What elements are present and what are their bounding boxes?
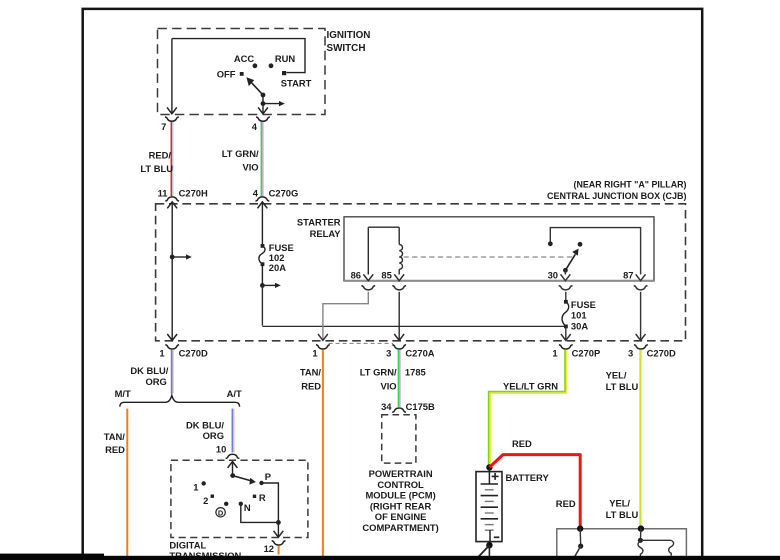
svg-text:7: 7 xyxy=(161,121,166,132)
label OFF xyxy=(217,69,236,80)
svg-text:LT GRN/: LT GRN/ xyxy=(222,148,259,159)
connector C270D right labels xyxy=(628,347,676,358)
DTR label N xyxy=(244,502,251,513)
svg-text:STARTER: STARTER xyxy=(297,217,341,228)
pin 4 label xyxy=(252,121,258,132)
DTR pin 10 cup xyxy=(226,454,240,458)
svg-text:RUN: RUN xyxy=(275,53,296,64)
svg-text:TAN/: TAN/ xyxy=(104,431,126,442)
svg-text:OFF: OFF xyxy=(217,69,236,80)
CJB center wire below fuse, junction dot and branch arrow xyxy=(260,264,281,288)
connector exit 1 cup (TAN/RED) xyxy=(316,345,330,349)
svg-text:RED: RED xyxy=(301,380,321,391)
solenoid S-terminal dot (yellow wire) xyxy=(638,525,644,531)
svg-text:C270A: C270A xyxy=(405,347,434,358)
connector C270A labels xyxy=(386,347,435,358)
svg-text:30A: 30A xyxy=(571,320,588,331)
svg-text:(NEAR RIGHT "A" PILLAR): (NEAR RIGHT "A" PILLAR) xyxy=(574,178,687,189)
wire YEL/LT GRN from C270P to battery xyxy=(489,350,567,467)
battery box xyxy=(476,472,502,542)
svg-text:DK BLU/: DK BLU/ xyxy=(186,419,224,430)
svg-text:CONTROL: CONTROL xyxy=(377,479,424,490)
svg-text:C270G: C270G xyxy=(269,187,299,198)
svg-text:87: 87 xyxy=(623,269,633,280)
relay pin 87 cup xyxy=(634,286,648,290)
svg-text:1: 1 xyxy=(552,347,557,358)
CJB left wire (C270H to C270D) with end arrows xyxy=(167,202,177,341)
wire LT GRN/VIO from pin 4 to C270G xyxy=(261,122,263,196)
svg-text:C270P: C270P xyxy=(572,347,601,358)
relay coil branch pin 86 lead xyxy=(363,227,399,281)
svg-text:3: 3 xyxy=(628,347,633,358)
battery negative junction dot xyxy=(486,542,492,548)
svg-text:4: 4 xyxy=(252,121,258,132)
label RED/LT BLU xyxy=(140,150,173,175)
label TAN/RED (M/T) xyxy=(104,431,126,455)
DTR label P xyxy=(265,471,271,482)
DTR wire N to junction xyxy=(241,504,279,523)
svg-text:M/T: M/T xyxy=(115,388,131,399)
connector C270G cup xyxy=(256,197,270,201)
relay pin 85 label xyxy=(381,269,391,280)
connector C270P cup xyxy=(559,345,573,349)
CJB location label xyxy=(547,178,687,200)
solenoid terminal dot (battery feed) xyxy=(577,525,583,531)
page frame border xyxy=(83,9,703,560)
label YEL/LT BLU lower xyxy=(606,498,639,520)
DTR pin 12 arrow out of box xyxy=(274,522,284,537)
contact OFF (square) xyxy=(240,72,244,76)
connector C270D left cup xyxy=(165,345,179,349)
ignition switch wire to pin 4 with down arrow xyxy=(258,95,268,114)
label YEL/LT BLU upper xyxy=(606,369,639,391)
svg-text:12: 12 xyxy=(264,543,274,554)
svg-text:LT BLU: LT BLU xyxy=(606,381,639,392)
label LT GRN/VIO xyxy=(360,367,397,392)
svg-text:LT GRN/: LT GRN/ xyxy=(360,367,397,378)
wire TAN/RED M/T branch xyxy=(126,409,128,556)
central junction box dashed border xyxy=(156,204,686,341)
PCM dashed box xyxy=(382,415,416,463)
label START xyxy=(281,78,312,89)
svg-text:START: START xyxy=(281,78,312,89)
svg-text:D: D xyxy=(218,508,224,517)
svg-text:30: 30 xyxy=(548,269,558,280)
relay moving contact dot xyxy=(578,242,583,247)
starter solenoid box xyxy=(557,529,687,557)
DTR pin 12 wire stub xyxy=(278,546,280,555)
contact START (square) xyxy=(282,71,286,75)
wire from pin 30 through fuse F101 to C270P xyxy=(565,292,567,302)
svg-text:OF ENGINE: OF ENGINE xyxy=(375,511,427,522)
ignition switch blade with arrow toward OFF xyxy=(246,77,263,95)
svg-text:C270D: C270D xyxy=(647,347,676,358)
svg-text:3: 3 xyxy=(386,347,391,358)
svg-text:RELAY: RELAY xyxy=(310,228,342,239)
svg-text:DIGITAL: DIGITAL xyxy=(169,539,206,550)
DTR name label xyxy=(169,539,241,560)
relay pin 87 label xyxy=(623,269,633,280)
svg-text:YEL/: YEL/ xyxy=(609,498,630,509)
DTR circled D xyxy=(216,508,225,518)
svg-text:RED: RED xyxy=(556,498,576,509)
ignition switch feed node dot xyxy=(261,101,266,106)
connector C270A cup xyxy=(392,345,406,349)
connector C270H cup xyxy=(165,197,179,201)
fuse F101 labels xyxy=(571,299,596,332)
svg-text:LT BLU: LT BLU xyxy=(140,163,173,174)
fuse F101 xyxy=(562,300,569,328)
svg-text:10: 10 xyxy=(216,443,226,454)
DTR contact D dot xyxy=(224,502,228,506)
svg-text:(RIGHT REAR: (RIGHT REAR xyxy=(370,500,432,511)
svg-text:CENTRAL JUNCTION BOX (CJB): CENTRAL JUNCTION BOX (CJB) xyxy=(547,190,687,201)
pin 7 connector cup xyxy=(165,117,179,121)
connector C270P labels xyxy=(552,347,600,358)
svg-text:POWERTRAIN: POWERTRAIN xyxy=(369,468,433,479)
battery cable RED xyxy=(489,455,580,527)
svg-text:86: 86 xyxy=(351,269,361,280)
svg-text:SWITCH: SWITCH xyxy=(327,43,366,54)
DTR junction dot xyxy=(276,520,281,525)
wire from pin 85 to CJB exit C270A xyxy=(394,292,404,341)
svg-text:20A: 20A xyxy=(269,262,286,273)
relay blade bottom dot and pin 30 lead xyxy=(561,268,571,281)
connector C270G labels xyxy=(253,187,299,198)
connector exit 1 label xyxy=(312,347,317,358)
label TAN/RED xyxy=(300,367,322,392)
pin 4 connector cup xyxy=(256,117,270,121)
DTR pin 12 cup xyxy=(272,541,286,545)
wire DK BLU/ORG from C270D xyxy=(172,350,174,394)
svg-text:ACC: ACC xyxy=(234,53,255,64)
DTR pin 12 label xyxy=(264,543,274,554)
svg-text:C270H: C270H xyxy=(179,187,208,198)
DTR contact N xyxy=(239,502,243,506)
svg-text:11: 11 xyxy=(158,187,168,198)
svg-text:TAN/: TAN/ xyxy=(300,367,322,378)
relay pin 86 label xyxy=(351,269,361,280)
svg-text:FUSE: FUSE xyxy=(571,299,596,310)
svg-text:RED: RED xyxy=(105,444,125,455)
DTR contact 2 xyxy=(211,495,214,498)
svg-text:1: 1 xyxy=(193,481,198,492)
starter relay label xyxy=(297,217,341,239)
ignition switch dashed box xyxy=(158,29,326,115)
svg-text:N: N xyxy=(244,502,251,513)
relay pin 85 cup xyxy=(392,286,406,290)
pin 7 label xyxy=(161,121,166,132)
svg-text:C270D: C270D xyxy=(179,347,208,358)
connector C175B labels xyxy=(381,401,435,412)
M/T A/T splice brace xyxy=(120,395,240,407)
battery positive terminal stem xyxy=(488,467,490,484)
CJB center wire top segment with up arrow xyxy=(258,202,268,246)
svg-text:34: 34 xyxy=(381,401,392,412)
relay pin 86 cup xyxy=(361,286,375,290)
label RED upper xyxy=(512,438,532,449)
PCM text block xyxy=(362,468,438,533)
svg-text:MODULE (PCM): MODULE (PCM) xyxy=(365,490,435,501)
DTR label R xyxy=(259,492,266,503)
fuse F102 xyxy=(259,244,265,266)
svg-text:101: 101 xyxy=(571,309,587,320)
svg-text:LT BLU: LT BLU xyxy=(606,509,639,520)
DTR sensor dashed box xyxy=(171,460,308,537)
label circuit 1785 xyxy=(405,367,426,378)
svg-text:VIO: VIO xyxy=(380,380,396,391)
wire from pin 87 to CJB exit C270D xyxy=(636,292,646,341)
DTR contact 1 xyxy=(202,481,206,485)
starter relay box xyxy=(344,217,654,281)
label DK BLU/ORG (A/T) xyxy=(186,419,224,440)
DTR wire P to pin 12 xyxy=(262,483,279,522)
connector C270H labels xyxy=(158,187,208,198)
DTR selector blade with arrow to P xyxy=(233,476,256,485)
DTR contact P xyxy=(259,481,263,485)
svg-text:VIO: VIO xyxy=(242,162,258,173)
svg-text:YEL/: YEL/ xyxy=(606,369,627,380)
wire LT GRN/VIO circuit 1785 xyxy=(399,350,401,407)
relay contact feed wire to pin 87 xyxy=(550,228,645,281)
svg-text:ORG: ORG xyxy=(145,376,166,387)
contact ACC (dot) xyxy=(253,63,258,68)
fuse F102 labels xyxy=(269,242,294,273)
battery ground leads xyxy=(478,545,490,557)
svg-text:C175B: C175B xyxy=(406,401,435,412)
relay pin 30 cup xyxy=(559,286,573,290)
svg-text:4: 4 xyxy=(253,187,259,198)
label DK BLU/ORG xyxy=(130,365,168,387)
battery minus sign xyxy=(494,536,500,538)
svg-text:2: 2 xyxy=(203,495,208,506)
ignition switch label xyxy=(327,30,371,54)
label RED lower xyxy=(556,498,576,509)
bottom black bar xyxy=(0,556,780,560)
battery negative stem xyxy=(489,530,491,545)
DTR label 2 xyxy=(203,495,208,506)
ignition switch internal wire (top bar to START) xyxy=(172,39,305,73)
connector C270D right cup xyxy=(634,345,648,349)
wire DK BLU/ORG A/T branch xyxy=(232,409,234,453)
svg-text:YEL/LT GRN: YEL/LT GRN xyxy=(503,381,558,392)
svg-text:R: R xyxy=(259,492,266,503)
ignition switch right arrow from feed node xyxy=(263,101,285,106)
svg-text:85: 85 xyxy=(381,269,391,280)
DTR pin 10 arrow into box xyxy=(228,462,238,476)
solenoid switch lead and dot xyxy=(574,529,583,558)
ignition switch left wire to pin 7 with down arrow xyxy=(167,39,177,114)
connector C270A group dashed edge xyxy=(329,342,394,344)
ignition switch pivot dot xyxy=(261,93,266,98)
svg-text:1785: 1785 xyxy=(405,367,426,378)
svg-text:1: 1 xyxy=(159,347,164,358)
svg-text:IGNITION: IGNITION xyxy=(327,30,371,41)
wire RED/LT BLU from pin 7 to C270H xyxy=(171,122,173,196)
CJB left wire junction dot and branch arrow xyxy=(170,254,192,259)
label ACC xyxy=(234,53,255,64)
wire YEL/LT BLU from C270D to solenoid xyxy=(640,350,642,527)
label LT GRN/VIO xyxy=(222,148,259,173)
battery positive junction dot xyxy=(486,464,492,470)
svg-text:BATTERY: BATTERY xyxy=(506,472,550,483)
bottom black bar left segment xyxy=(0,554,104,560)
wire TAN/RED from exit 1 xyxy=(322,350,324,556)
relay switch blade with arrow xyxy=(565,249,578,271)
solenoid windings xyxy=(638,529,674,557)
contact RUN (dot) xyxy=(269,63,274,68)
svg-text:DK BLU/: DK BLU/ xyxy=(130,365,168,376)
CJB center wire down to bus xyxy=(261,285,263,325)
svg-text:COMPARTMENT): COMPARTMENT) xyxy=(362,522,438,533)
relay pin 30 label xyxy=(548,269,558,280)
DTR label 1 xyxy=(193,481,198,492)
DTR pivot dot xyxy=(230,473,235,478)
battery plates xyxy=(481,484,498,530)
DTR contact R xyxy=(253,495,256,498)
battery plus sign xyxy=(492,473,499,480)
label A/T xyxy=(227,388,242,399)
relay fixed contact dot xyxy=(548,241,553,246)
connector C270D left labels xyxy=(159,347,208,358)
horizontal bus wire to fuse F101 bottom xyxy=(262,325,565,327)
battery label xyxy=(506,472,550,483)
svg-text:1: 1 xyxy=(312,347,317,358)
svg-text:RED: RED xyxy=(512,438,532,449)
svg-text:ORG: ORG xyxy=(203,430,224,441)
wire from pin 86 to CJB exit 1 xyxy=(318,292,368,341)
svg-text:RED/: RED/ xyxy=(149,150,172,161)
wire below fuse F101 with down arrow xyxy=(561,326,571,340)
label YEL/LT GRN xyxy=(503,381,558,392)
connector C175B cup xyxy=(392,408,406,412)
label RUN xyxy=(275,53,296,64)
DTR pin 10 label xyxy=(216,443,226,454)
svg-text:A/T: A/T xyxy=(227,388,242,399)
label M/T xyxy=(115,388,131,399)
relay coil xyxy=(394,227,404,281)
svg-text:P: P xyxy=(265,471,271,482)
relay actuation dashed line xyxy=(404,256,574,258)
